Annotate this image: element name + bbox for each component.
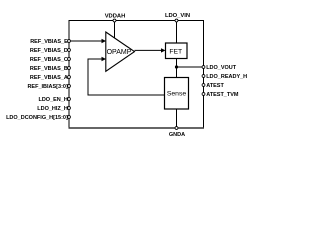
junction FET/Sense/LDO_VOUT bbox=[175, 65, 178, 68]
wire feedback into OPAMP - input bbox=[88, 57, 106, 61]
svg-text:VDDAH: VDDAH bbox=[105, 13, 126, 19]
op-amp OPAMP bbox=[106, 32, 135, 71]
svg-text:FET: FET bbox=[169, 48, 182, 55]
pin ATEST_TVM bbox=[202, 92, 239, 98]
pin LDO_VIN bbox=[165, 13, 190, 22]
svg-text:ATEST_TVM: ATEST_TVM bbox=[206, 92, 239, 98]
svg-text:LDO_DCONFIG_H[15:0]: LDO_DCONFIG_H[15:0] bbox=[6, 115, 68, 121]
pin REF_VBIAS_A bbox=[30, 75, 71, 81]
FET block bbox=[166, 43, 188, 59]
wire feedback vertical segment bbox=[87, 59, 89, 96]
svg-text:LDO_VOUT: LDO_VOUT bbox=[206, 65, 237, 71]
pin REF_VBIAS_C bbox=[30, 57, 71, 63]
wire VDDAH to OPAMP top bbox=[114, 21, 116, 39]
pin REF_VBIAS_E bbox=[30, 39, 70, 45]
pin VDDAH bbox=[105, 13, 126, 22]
wire feedback from Sense bbox=[88, 94, 165, 96]
wire LDO_VIN to FET top bbox=[176, 21, 178, 44]
svg-text:LDO_READY_H: LDO_READY_H bbox=[206, 74, 247, 80]
wire Sense to GNDA bbox=[176, 109, 178, 128]
svg-text:OPAMP: OPAMP bbox=[107, 49, 132, 56]
wire FET to Sense bbox=[176, 59, 178, 78]
pin REF_VBIAS_B bbox=[30, 66, 71, 72]
svg-text:REF_VBIAS_D: REF_VBIAS_D bbox=[30, 48, 68, 54]
pin REF_IBIAS[3:0] bbox=[27, 84, 70, 90]
svg-text:REF_VBIAS_B: REF_VBIAS_B bbox=[30, 66, 68, 72]
svg-text:REF_VBIAS_E: REF_VBIAS_E bbox=[30, 39, 68, 45]
svg-text:REF_VBIAS_C: REF_VBIAS_C bbox=[30, 57, 68, 63]
svg-text:ATEST: ATEST bbox=[206, 83, 224, 89]
Sense block bbox=[165, 78, 189, 110]
pin LDO_VOUT bbox=[202, 65, 237, 71]
pin ATEST bbox=[202, 83, 224, 89]
svg-text:REF_VBIAS_A: REF_VBIAS_A bbox=[30, 75, 68, 81]
svg-text:LDO_VIN: LDO_VIN bbox=[165, 13, 190, 19]
svg-text:LDO_HIZ_H: LDO_HIZ_H bbox=[37, 106, 68, 112]
wire OPAMP output to FET bbox=[135, 48, 166, 52]
block boundary bottom edge bbox=[69, 127, 205, 129]
pin LDO_HIZ_H bbox=[37, 106, 70, 112]
svg-text:LDO_EN_H: LDO_EN_H bbox=[38, 97, 67, 103]
wire REF_VBIAS_E to OPAMP + input bbox=[69, 39, 106, 43]
pin LDO_READY_H bbox=[202, 74, 247, 80]
wire junction to LDO_VOUT bbox=[177, 66, 204, 68]
pin GNDA bbox=[169, 127, 185, 139]
svg-text:Sense: Sense bbox=[167, 91, 186, 98]
pin LDO_EN_H bbox=[38, 97, 70, 103]
svg-text:REF_IBIAS[3:0]: REF_IBIAS[3:0] bbox=[27, 84, 68, 90]
svg-text:GNDA: GNDA bbox=[169, 132, 185, 138]
pin REF_VBIAS_D bbox=[30, 48, 71, 54]
pin LDO_DCONFIG_H[15:0] bbox=[6, 115, 70, 121]
LDO block boundary bbox=[69, 21, 204, 129]
